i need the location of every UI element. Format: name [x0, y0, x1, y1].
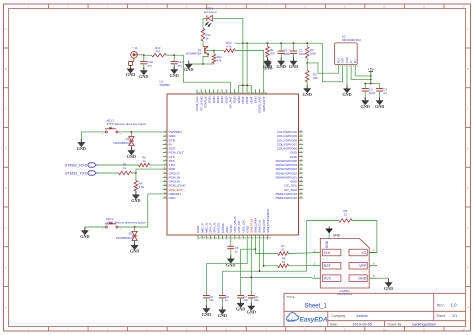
- wire KEY2 left to ground: [85, 227, 105, 231]
- wire KEY1 right to PWRKEY pin: [118, 131, 163, 133]
- resistor R9: [307, 209, 352, 222]
- capacitor C7: [237, 295, 248, 303]
- svg-text:15: 15: [164, 188, 166, 190]
- svg-text:59: 59: [300, 135, 302, 137]
- wire GND pin stair to C6: [206, 239, 247, 295]
- svg-text:TITLE:: TITLE:: [287, 295, 296, 299]
- ground for U2 GND pin: [342, 67, 351, 97]
- svg-text:48: 48: [300, 180, 302, 182]
- svg-text:4.7k: 4.7k: [226, 45, 232, 49]
- svg-text:58: 58: [300, 139, 302, 141]
- ground for R1: [263, 58, 272, 70]
- svg-text:GND: GND: [263, 64, 272, 69]
- ground for D2: [130, 242, 139, 254]
- ground for C4: [375, 97, 384, 109]
- wire Q1 base to R11/R10 junction: [205, 50, 215, 52]
- svg-text:GND: GND: [77, 146, 86, 151]
- svg-text:PESMB36CA: PESMB36CA: [114, 141, 131, 145]
- resistor R4: [134, 173, 145, 195]
- svg-text:G: G: [467, 267, 469, 270]
- resistor R7: [278, 244, 313, 255]
- LED LED1 green indicator: [204, 7, 217, 27]
- ground for D1: [127, 147, 136, 159]
- net flag STM32_TXD: [65, 170, 98, 175]
- resistor R6: [138, 155, 149, 167]
- svg-text:VCC: VCC: [324, 277, 332, 281]
- wire SIM_DATA to R7: [255, 239, 277, 253]
- svg-text:GND: GND: [375, 104, 384, 109]
- ground flag at card shield: [326, 226, 341, 238]
- svg-text:2019-09-05: 2019-09-05: [353, 323, 372, 327]
- svg-text:D2: D2: [129, 231, 133, 235]
- TVS diode D2 PESMB36CA: [116, 227, 137, 245]
- wire FL to C10 junction: [137, 54, 144, 56]
- svg-text:60: 60: [300, 131, 302, 133]
- svg-text:16: 16: [164, 192, 166, 194]
- svg-text:ant: ant: [156, 49, 160, 53]
- svg-text:470: 470: [270, 52, 275, 56]
- svg-text:43k: 43k: [313, 76, 318, 80]
- svg-text:17: 17: [164, 197, 166, 199]
- capacitor C5: [227, 239, 238, 258]
- svg-text:C: C: [467, 108, 469, 111]
- svg-text:MIC29302WU: MIC29302WU: [342, 38, 361, 42]
- svg-text:100n: 100n: [369, 91, 376, 95]
- wire VBAT rail: [235, 42, 323, 44]
- svg-text:D: D: [5, 147, 7, 150]
- svg-text:56: 56: [300, 147, 302, 149]
- wire SIM_RST to R8: [263, 239, 278, 266]
- capacitor C4: [376, 84, 387, 101]
- module U1 SIM800: [160, 80, 303, 240]
- resistor R5: [119, 162, 132, 175]
- ground for C3: [277, 58, 286, 70]
- ground for C2: [361, 97, 370, 109]
- svg-text:4: 4: [165, 143, 166, 145]
- wire C11 to RF_ANT pin: [174, 55, 230, 89]
- wire second VBAT vertical from rail: [246, 42, 248, 85]
- push button KEY2: [102, 217, 146, 231]
- svg-text:H: H: [467, 306, 469, 309]
- svg-text:55: 55: [300, 151, 302, 153]
- ground for C7: [236, 300, 245, 312]
- transistor Q1: [186, 46, 209, 55]
- push button KEY1: [102, 118, 147, 135]
- svg-text:1k: 1k: [205, 37, 209, 41]
- svg-text:GND: GND: [126, 72, 135, 77]
- svg-text:GND: GND: [226, 262, 235, 267]
- svg-text:3: 3: [165, 139, 166, 141]
- wire +5V to decoupling caps: [364, 83, 379, 85]
- svg-text:1u: 1u: [383, 91, 387, 95]
- svg-text:GND: GND: [289, 64, 298, 69]
- svg-text:STM32_RXD: STM32_RXD: [64, 162, 87, 167]
- svg-text:45: 45: [300, 192, 302, 194]
- svg-text:C: C: [5, 108, 7, 111]
- svg-text:GND: GND: [131, 198, 140, 203]
- ground for FL: [126, 65, 135, 77]
- capacitor C6: [203, 295, 214, 309]
- ground for Q1 emitter: [184, 61, 193, 72]
- svg-text:14: 14: [164, 184, 166, 186]
- svg-text:54: 54: [300, 155, 302, 157]
- svg-text:6: 6: [165, 151, 166, 153]
- svg-text:1u: 1u: [225, 298, 229, 302]
- svg-text:NETLIGHT: NETLIGHT: [262, 96, 266, 111]
- capacitor C11: [171, 54, 184, 69]
- svg-text:4*6*5 Silicone silent key butt: 4*6*5 Silicone silent key button: [107, 122, 147, 126]
- SIM card connector CARD1: [312, 238, 377, 296]
- svg-text:GND: GND: [325, 240, 329, 248]
- svg-text:53: 53: [300, 159, 302, 161]
- wire R5 to RXD pin: [131, 169, 162, 174]
- ground for KEY1: [77, 139, 86, 151]
- svg-text:5: 5: [165, 147, 166, 149]
- svg-text:7: 7: [165, 155, 166, 157]
- wire card GND pin to ground: [377, 278, 389, 282]
- svg-text:47k: 47k: [217, 59, 222, 63]
- resistor R10: [214, 41, 235, 52]
- svg-text:EN: EN: [353, 59, 357, 63]
- wire U2 IN to +5V: [351, 67, 372, 80]
- svg-text:OUT: OUT: [341, 57, 345, 63]
- svg-text:46: 46: [300, 188, 302, 190]
- wire SIM_VDD down to card VCC and C8: [241, 239, 313, 295]
- ground for R2: [303, 85, 312, 97]
- svg-text:50: 50: [300, 172, 302, 174]
- svg-text:GND: GND: [247, 309, 256, 314]
- svg-text:VPP: VPP: [359, 264, 367, 268]
- svg-text:BCM847BA: BCM847BA: [186, 52, 201, 56]
- svg-text:GND: GND: [80, 234, 89, 239]
- svg-text:49: 49: [300, 176, 302, 178]
- svg-text:Company:: Company:: [332, 314, 347, 318]
- svg-text:10: 10: [164, 168, 166, 170]
- capacitor C3: [278, 43, 291, 61]
- svg-text:Sheet:: Sheet:: [437, 314, 446, 318]
- wire Q1 emitter to ground rail: [189, 55, 214, 65]
- wire VBAT vertical from LED to VBAT pins: [242, 18, 244, 85]
- svg-text:Sheet_1: Sheet_1: [305, 304, 328, 310]
- ground for C6: [202, 305, 211, 317]
- regulator U2 MIC29302WU: [335, 34, 361, 67]
- svg-text:G: G: [5, 267, 7, 270]
- svg-text:1/1: 1/1: [452, 314, 457, 318]
- ground for C10: [139, 67, 148, 79]
- svg-text:44: 44: [300, 197, 302, 199]
- wire R6 to TXD pin: [150, 164, 163, 166]
- svg-text:GND: GND: [169, 196, 177, 200]
- wire U2 EN to +5V: [355, 67, 371, 77]
- resistor R8: [278, 256, 313, 267]
- svg-text:GND: GND: [130, 249, 139, 254]
- svg-text:GND: GND: [202, 312, 211, 317]
- svg-text:H: H: [5, 306, 7, 309]
- svg-text:PESMB36CA: PESMB36CA: [116, 236, 133, 240]
- svg-text:100k: 100k: [310, 52, 317, 56]
- wire STM32_RXD to R6: [98, 164, 138, 166]
- resistor R3: [305, 43, 316, 64]
- svg-text:1u: 1u: [235, 249, 239, 253]
- wire ADJ to R2/R3 junction: [307, 63, 338, 73]
- svg-text:RST: RST: [324, 264, 332, 268]
- resistor R13: [144, 46, 174, 57]
- svg-text:100n: 100n: [284, 52, 291, 56]
- wire VBAT rail to U2 OUT: [322, 43, 342, 82]
- svg-text:PWM2/GPIO22: PWM2/GPIO22: [276, 196, 298, 200]
- svg-text:52: 52: [300, 164, 302, 166]
- svg-text:GND: GND: [358, 277, 366, 281]
- svg-text:100u: 100u: [299, 52, 306, 56]
- svg-text:GND: GND: [333, 233, 341, 237]
- ground for KEY2: [80, 227, 89, 239]
- wire SIM_PRESENCE stub: [267, 235, 269, 239]
- wire R9 to card I/O: [352, 221, 377, 253]
- svg-text:SIM_PRESENCE: SIM_PRESENCE: [266, 209, 270, 233]
- resistor R2: [305, 63, 318, 89]
- resistor R11: [212, 51, 222, 65]
- svg-text:22p: 22p: [254, 298, 259, 302]
- svg-text:+: +: [289, 47, 291, 51]
- svg-text:GND: GND: [139, 74, 148, 79]
- svg-text:51: 51: [281, 247, 285, 251]
- svg-text:+5V: +5V: [368, 67, 375, 71]
- svg-text:22p: 22p: [243, 298, 248, 302]
- ground for C5: [226, 255, 235, 267]
- capacitor C10: [140, 55, 153, 70]
- wire KEY1 left to ground: [81, 132, 105, 143]
- svg-text:GND: GND: [361, 104, 370, 109]
- svg-text:IN: IN: [349, 60, 353, 63]
- ground for C1: [289, 58, 298, 70]
- svg-text:Drawn By:: Drawn By:: [388, 322, 403, 326]
- svg-text:REV:: REV:: [437, 304, 444, 308]
- svg-text:GND: GND: [384, 286, 393, 291]
- ground for C8: [247, 303, 256, 315]
- svg-text:sarathgaddam: sarathgaddam: [412, 323, 436, 327]
- svg-text:Indivar: Indivar: [357, 314, 369, 318]
- wire VBAT pins header: [239, 84, 252, 89]
- title block: [284, 293, 466, 326]
- svg-text:FL: FL: [135, 46, 139, 50]
- svg-text:GND: GND: [170, 73, 179, 78]
- svg-text:1.0: 1.0: [451, 303, 458, 308]
- capacitor C2: [362, 84, 376, 101]
- svg-text:GND: GND: [303, 92, 312, 97]
- wire KEY2 right to NRESET pin: [118, 194, 163, 228]
- capacitor C9: [219, 295, 229, 310]
- ground for R4: [131, 191, 140, 203]
- svg-text:13: 13: [164, 180, 166, 182]
- svg-text:led Green: led Green: [204, 10, 217, 14]
- wire STM32_TXD to R5: [98, 172, 118, 174]
- resistor R12: [201, 29, 211, 47]
- power flag +5V: [368, 67, 375, 83]
- TVS diode D1 PESMB36CA: [114, 132, 134, 151]
- antenna connector FL: [129, 46, 139, 65]
- svg-text:51: 51: [344, 213, 348, 217]
- capacitor C8: [248, 295, 259, 306]
- svg-text:ant: ant: [178, 64, 182, 68]
- svg-text:1k: 1k: [143, 159, 147, 163]
- wire R10 to NETLIGHT pin: [235, 51, 264, 90]
- EasyEDA logo: [287, 313, 328, 324]
- wire SIM_CLK stair to C9 and R9: [222, 221, 306, 296]
- svg-text:51: 51: [282, 260, 286, 264]
- svg-text:EasyEDA: EasyEDA: [300, 317, 328, 324]
- wire LED cathode down to R12: [202, 18, 204, 28]
- svg-text:GND: GND: [184, 67, 193, 72]
- svg-text:11: 11: [164, 172, 166, 174]
- ground for C9: [218, 306, 227, 318]
- svg-text:GND: GND: [342, 92, 351, 97]
- svg-text:2: 2: [165, 135, 166, 137]
- ground for C11: [170, 66, 179, 78]
- svg-text:STM32_TXD: STM32_TXD: [65, 170, 88, 175]
- svg-text:I/O: I/O: [362, 251, 367, 255]
- svg-text:8: 8: [165, 159, 166, 161]
- capacitor C1 polarized: [289, 43, 306, 61]
- svg-text:ant: ant: [148, 64, 152, 68]
- wire link on SIM_DATA net: [241, 248, 257, 277]
- svg-text:5.6k: 5.6k: [139, 185, 145, 189]
- svg-text:0F12080S01: 0F12080S01: [337, 292, 352, 296]
- ground for card: [384, 279, 393, 291]
- svg-text:9: 9: [165, 164, 166, 166]
- svg-text:51: 51: [300, 168, 302, 170]
- svg-text:ADJ: ADJ: [337, 58, 341, 64]
- wire VCC row down to C7: [240, 277, 242, 295]
- wire LED anode to VBAT vertical: [203, 17, 243, 19]
- ground stub on NETLIGHT net: [263, 59, 272, 70]
- svg-text:CLK: CLK: [324, 251, 332, 255]
- svg-text:12: 12: [164, 176, 166, 178]
- svg-text:1: 1: [165, 131, 166, 133]
- svg-text:GND: GND: [277, 64, 286, 69]
- svg-text:GND: GND: [345, 57, 349, 63]
- net flag STM32_RXD: [64, 162, 98, 167]
- svg-text:22p: 22p: [209, 298, 214, 302]
- svg-text:57: 57: [300, 143, 302, 145]
- svg-text:Date:: Date:: [330, 322, 338, 326]
- svg-text:SIM800: SIM800: [160, 83, 171, 87]
- svg-text:GND: GND: [127, 154, 136, 159]
- svg-text:GND: GND: [218, 313, 227, 318]
- svg-text:47: 47: [300, 184, 302, 186]
- svg-text:GND: GND: [236, 307, 245, 312]
- resistor R1: [266, 43, 276, 61]
- svg-text:D: D: [467, 147, 469, 150]
